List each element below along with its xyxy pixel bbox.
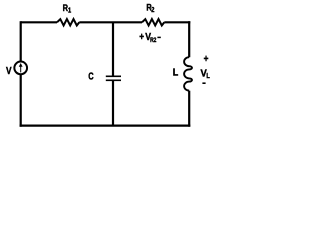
wire right lower	[188, 91, 190, 127]
svg-text:C: C	[88, 71, 94, 82]
label + VL -	[201, 53, 210, 83]
svg-text:V: V	[6, 65, 12, 76]
svg-text:L: L	[206, 72, 210, 80]
label + VR2 -	[139, 31, 161, 44]
svg-text:R2: R2	[150, 37, 157, 44]
resistor R2	[142, 19, 164, 25]
svg-text:+: +	[139, 31, 144, 42]
inductor L	[184, 57, 192, 90]
resistor R1	[57, 19, 79, 25]
wire top-right segment	[164, 21, 190, 23]
svg-text:L: L	[173, 67, 179, 79]
label R1	[63, 2, 72, 15]
source V (circle with up arrow)	[14, 62, 27, 75]
label R2	[146, 2, 154, 15]
wire left lower	[20, 74, 22, 127]
capacitor C plates	[106, 76, 121, 80]
wire top-middle segment	[79, 21, 142, 23]
svg-text:1: 1	[68, 7, 71, 15]
wire bottom	[20, 124, 191, 126]
label V	[6, 65, 12, 76]
wire top-left segment	[21, 21, 57, 23]
wire middle branch upper	[112, 22, 114, 76]
wire left upper	[20, 21, 22, 62]
wire right upper (to inductor)	[188, 21, 190, 57]
label L	[173, 67, 179, 79]
svg-text:+: +	[204, 53, 209, 64]
label C	[88, 71, 94, 82]
wire middle branch lower	[112, 80, 114, 125]
svg-text:2: 2	[151, 7, 154, 15]
